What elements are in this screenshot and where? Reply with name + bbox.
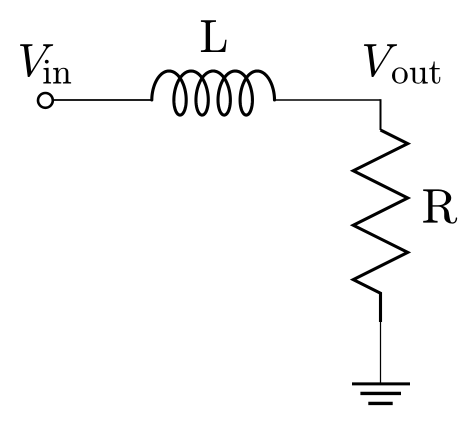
label V_out [364, 44, 440, 84]
wire inductor to Vout node [275, 99, 381, 101]
label L (inductor value) [201, 20, 227, 52]
inductor L (coil) [152, 71, 275, 115]
label R (resistor value) [423, 189, 457, 223]
wire Vin terminal to inductor [53, 99, 152, 101]
resistor R (zigzag) [353, 130, 407, 322]
node Vin: input terminal (open circle) [38, 93, 53, 108]
label V_in [20, 44, 71, 83]
wire Vout node down to resistor [380, 99, 382, 130]
wire resistor to ground [380, 322, 382, 384]
ground [352, 384, 410, 404]
